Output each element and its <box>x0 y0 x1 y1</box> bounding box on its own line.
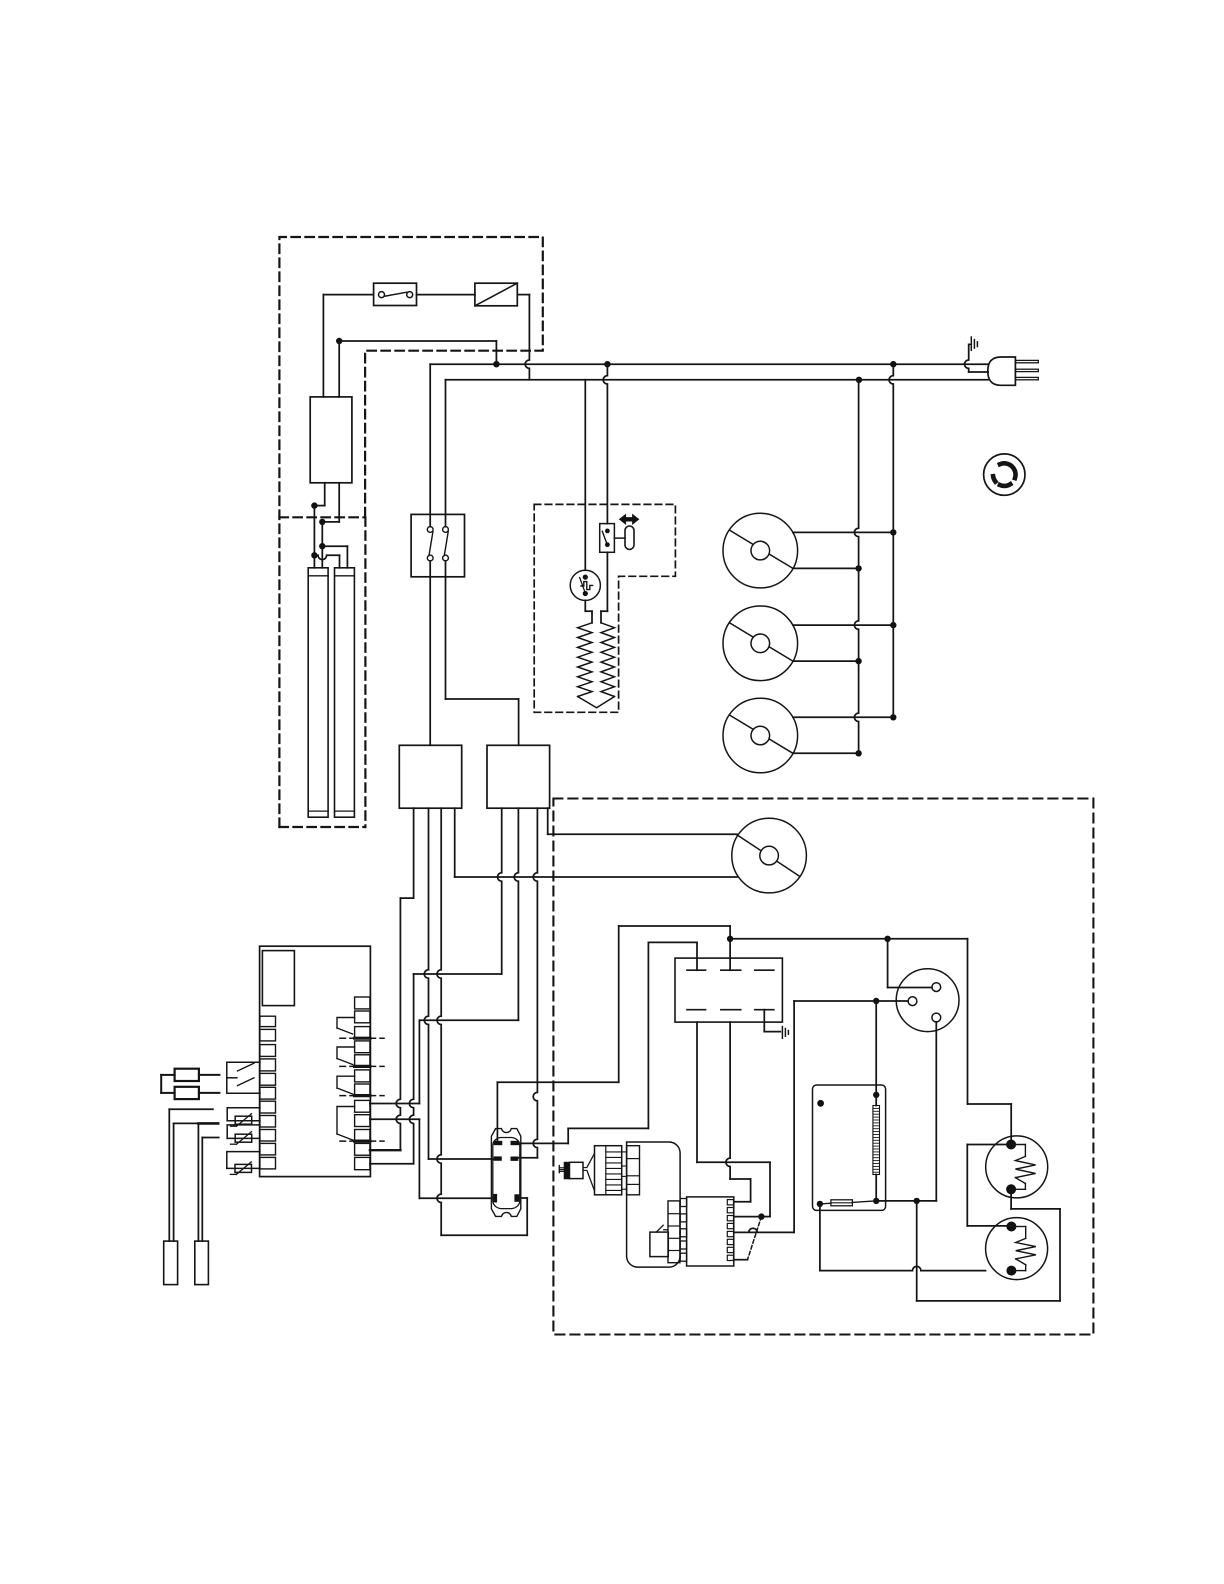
node M1 neutral <box>855 565 861 571</box>
wire: board pin9 to inline connector <box>370 1119 495 1198</box>
connector pad top-right <box>511 1141 519 1144</box>
wire: connector TL pad to capacitor node <box>497 926 730 1141</box>
pcb mount dot <box>817 1100 824 1107</box>
start relay body <box>687 1197 734 1266</box>
wire A1: block A pin1 to board pin11 <box>370 808 414 1150</box>
capacitor stem C1 top <box>696 942 698 970</box>
node: pcb output <box>817 1201 823 1207</box>
wire: door switch to connector block B <box>446 561 519 745</box>
wire: probe2 lead b <box>202 1138 218 1242</box>
wire: junction to line rail <box>339 341 496 364</box>
wire B2: block B pin2 to board pin8 <box>370 808 519 1103</box>
defrost heater right element <box>601 623 615 697</box>
node M2 hot <box>890 622 896 628</box>
temperature probe 2 <box>195 1241 209 1285</box>
wire: pcb coil feed <box>875 1001 877 1095</box>
line rail L (top) <box>430 363 988 365</box>
icemaker shutoff switch <box>600 524 615 553</box>
ground symbol at capacitor <box>782 1027 788 1039</box>
neutral rail N <box>446 379 988 381</box>
connector block B <box>487 745 550 808</box>
icemaker arm double arrow <box>620 515 639 524</box>
board left pin header <box>260 1016 276 1169</box>
overload protector <box>650 1225 668 1256</box>
wire: transformer left secondary <box>314 483 324 506</box>
dashed enclosure: icemaker box <box>534 504 675 712</box>
wire B1: block B pin1 to board pin12 <box>370 808 502 1164</box>
wire: H1 bottom return <box>917 1189 1060 1301</box>
door switch plunger 1 <box>175 1069 199 1081</box>
wire: M1 hot <box>793 531 893 533</box>
icemaker sense arm (capsule) <box>625 526 634 549</box>
board right pin header <box>355 997 370 1170</box>
drain heater H2 (lower) <box>986 1218 1048 1280</box>
node: pin3 branch <box>914 1198 920 1204</box>
wire: block B pin4 to M4 hot <box>548 808 737 834</box>
node D <box>319 543 325 549</box>
node: cap C2 junction <box>727 936 733 942</box>
twist-lock receptacle symbol <box>984 454 1025 495</box>
board relay link line row7 <box>340 1095 384 1097</box>
fan motor M3 (fresh food fan) <box>723 698 798 773</box>
node M3 neutral <box>855 750 861 756</box>
ground symbol at plug <box>969 337 978 350</box>
power plug body <box>988 357 1016 385</box>
wire: thermostat to left heater <box>585 600 592 622</box>
wire: M3 hot <box>793 716 893 718</box>
wire: node C arc hop to lamp2 pin1 <box>314 555 339 568</box>
wire: M3 neutral <box>793 752 859 754</box>
board IC block <box>262 951 294 1006</box>
wire: blade end to tooth <box>734 1259 748 1261</box>
start relay right teeth <box>727 1200 733 1261</box>
wire: plunger 1 to switch <box>199 1074 220 1076</box>
board relay link line row10 <box>340 1140 384 1142</box>
wire: pin2 lead to relay <box>734 1001 908 1232</box>
node: motor rail tap on N <box>856 377 862 383</box>
wire: plunger 2 to switch <box>199 1092 220 1094</box>
wire: probe1 lead a <box>169 1109 213 1241</box>
door switch contacts <box>427 527 448 561</box>
wire A3: block A pin3 to inline connector <box>437 808 527 1235</box>
node: junction on lamp feed <box>336 338 342 344</box>
defrost heater left element <box>578 623 592 697</box>
wire: L rail to icemaker shutoff switch <box>603 364 607 523</box>
node: coil top <box>873 1092 879 1098</box>
door switch contact bracket <box>227 1062 260 1093</box>
inline connector housing <box>491 1129 520 1217</box>
connector pad top-left <box>494 1141 502 1144</box>
wire: pin1 lead <box>888 939 932 988</box>
wire: N rail to door switch <box>445 380 447 527</box>
wire: probe2 lead a <box>198 1123 218 1241</box>
double door switch box <box>411 514 464 576</box>
connector pad bottom-right <box>515 1195 519 1202</box>
fan motor M4 (mullion fan) <box>732 818 807 893</box>
wire: transformer right secondary <box>322 483 339 522</box>
control board (main PCB) <box>260 946 371 1176</box>
wire: L rail to door switch <box>429 364 431 526</box>
fan motor M2 (condenser fan) <box>723 606 798 681</box>
wire: plunger common loop <box>161 1075 174 1093</box>
fluorescent lamp LT2 <box>335 568 355 817</box>
compressor stator (ribbed) <box>595 1146 627 1195</box>
wire: node B to lamp1 pin2 <box>321 522 323 568</box>
plug prong 3 <box>1015 377 1038 379</box>
wire: heater bottom V link <box>578 697 615 708</box>
node: relay common <box>758 1213 764 1219</box>
capacitor stem C3 bottom to ground <box>764 1010 780 1032</box>
wire: relay common to tooth <box>734 1216 762 1218</box>
compressor pin column <box>627 1146 640 1195</box>
connector pad mid-right <box>511 1157 518 1160</box>
wire: probe1 lead b <box>174 1123 199 1241</box>
wire: door switch to connector block A <box>429 561 431 745</box>
fluorescent lamp LT1 <box>308 568 328 817</box>
wire: cap node rail to heaters <box>888 939 1012 1140</box>
wire: switch to sense arm <box>614 537 625 539</box>
capacitor stem C2 bottom to relay pin1 <box>726 1022 751 1202</box>
wire: H1 to H2 parallel link <box>967 1145 1011 1226</box>
node C <box>311 552 317 558</box>
board relay link line row5 <box>340 1065 384 1067</box>
node: coil bottom <box>873 1198 879 1204</box>
compressor housing <box>627 1142 681 1267</box>
capacitor plates <box>687 970 774 1010</box>
wire: N rail to mold thermostat <box>584 380 586 570</box>
wire A2: block A pin2 to inline connector <box>424 808 495 1159</box>
wire: junction down to transformer <box>338 341 340 397</box>
wire: block A pin4 to M4 neutral <box>455 808 737 877</box>
node: compressor pin1 tap <box>884 936 890 942</box>
wire: pcb output to lower heater <box>820 1204 986 1271</box>
door switch plunger 2 <box>175 1087 199 1099</box>
node: icemaker heater tap on L <box>604 361 610 367</box>
wire: pin3 lead <box>876 1022 936 1201</box>
compressor terminal column <box>668 1201 680 1263</box>
connector block A <box>399 745 461 808</box>
wire: S1 left to transformer <box>323 295 373 397</box>
wire: M2 neutral <box>793 660 859 662</box>
wire: cap node to compressor pin1 lead <box>730 938 888 940</box>
wire: S1 to ballast <box>417 294 475 296</box>
dashed enclosure: machine compartment box <box>553 799 1093 1335</box>
ballast / lamp driver <box>475 283 517 306</box>
defrost heater H1 (upper) <box>986 1136 1048 1198</box>
wire: node A to lamp1 pin1 <box>313 506 315 568</box>
dashed enclosure: freezer light / lighting circuit box <box>279 237 542 827</box>
capacitor stem C2 top <box>729 939 731 970</box>
plug prong 1 <box>1015 360 1038 362</box>
wire: connector TR pad to capacitor stem1 <box>519 942 697 1143</box>
node M2 neutral <box>855 658 861 664</box>
wire: fan neutral rail <box>854 380 858 754</box>
wire: M1 neutral <box>793 567 859 569</box>
board relay link line row3 <box>340 1037 384 1039</box>
wire: ground prong lead <box>964 344 988 372</box>
wire: fan line rail <box>889 364 893 717</box>
node: pin2 pcb tap <box>873 998 879 1004</box>
wire: switch to right heater <box>601 552 607 623</box>
pcb fuse <box>820 1200 876 1206</box>
node A <box>311 502 317 508</box>
thermistor RT3 (with bracket) <box>227 1152 260 1175</box>
compressor motor unit <box>559 1154 594 1191</box>
plug prong 2 <box>1015 369 1038 371</box>
thermistor RT2 (with bracket) <box>227 1125 260 1144</box>
node: junction on line rail <box>493 361 499 367</box>
thermistor RT1 (with bracket) <box>227 1108 260 1127</box>
transformer / lamp ballast block <box>310 397 352 483</box>
wire: ballast down to neutral rail <box>517 295 529 380</box>
wire: node D to lamp2 pin2 <box>322 546 347 568</box>
connector pad mid-left <box>494 1157 501 1160</box>
node B <box>319 519 325 525</box>
run capacitor box <box>675 958 782 1022</box>
node M1 hot <box>890 529 896 535</box>
connector pad bottom-left <box>494 1194 497 1202</box>
relay armature (dashed blade) <box>748 1217 762 1260</box>
light switch S1 (rocker) <box>374 283 417 305</box>
start relay left tabs <box>680 1199 687 1262</box>
pcb relay coil <box>873 1095 880 1201</box>
defrost control board <box>813 1085 886 1210</box>
node: motor rail tap on L <box>890 361 896 367</box>
board internal relay contacts <box>337 1018 355 1141</box>
compressor 3-pin connector <box>896 969 959 1032</box>
capacitor stem C1 bottom to relay common <box>697 1022 770 1217</box>
fan motor M1 (evaporator fan) <box>723 513 798 588</box>
wire B3: block B pin3 to inline connector <box>518 808 538 1158</box>
temperature probe 1 <box>164 1241 178 1285</box>
wire: M2 hot <box>793 624 893 626</box>
node M3 hot <box>890 714 896 720</box>
icemaker mold thermostat <box>570 570 600 600</box>
